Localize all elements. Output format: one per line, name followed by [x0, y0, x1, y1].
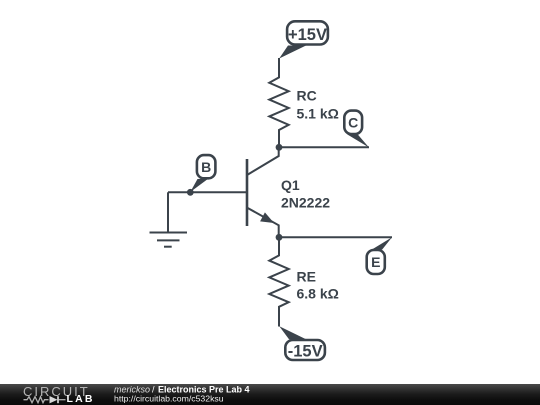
svg-text:5.1 kΩ: 5.1 kΩ [297, 106, 339, 122]
svg-text:http://circuitlab.com/c532ksu: http://circuitlab.com/c532ksu [114, 394, 224, 404]
svg-text:RE: RE [297, 269, 316, 285]
svg-text:RC: RC [297, 88, 317, 104]
svg-text:6.8 kΩ: 6.8 kΩ [297, 285, 339, 301]
svg-text:B: B [201, 159, 211, 175]
svg-text:+15V: +15V [288, 26, 327, 44]
svg-text:-15V: -15V [288, 342, 323, 360]
svg-text:E: E [371, 254, 380, 270]
svg-text:C: C [348, 115, 358, 131]
svg-text:2N2222: 2N2222 [281, 195, 330, 211]
svg-text:Q1: Q1 [281, 177, 300, 193]
svg-text:LAB: LAB [67, 393, 95, 405]
